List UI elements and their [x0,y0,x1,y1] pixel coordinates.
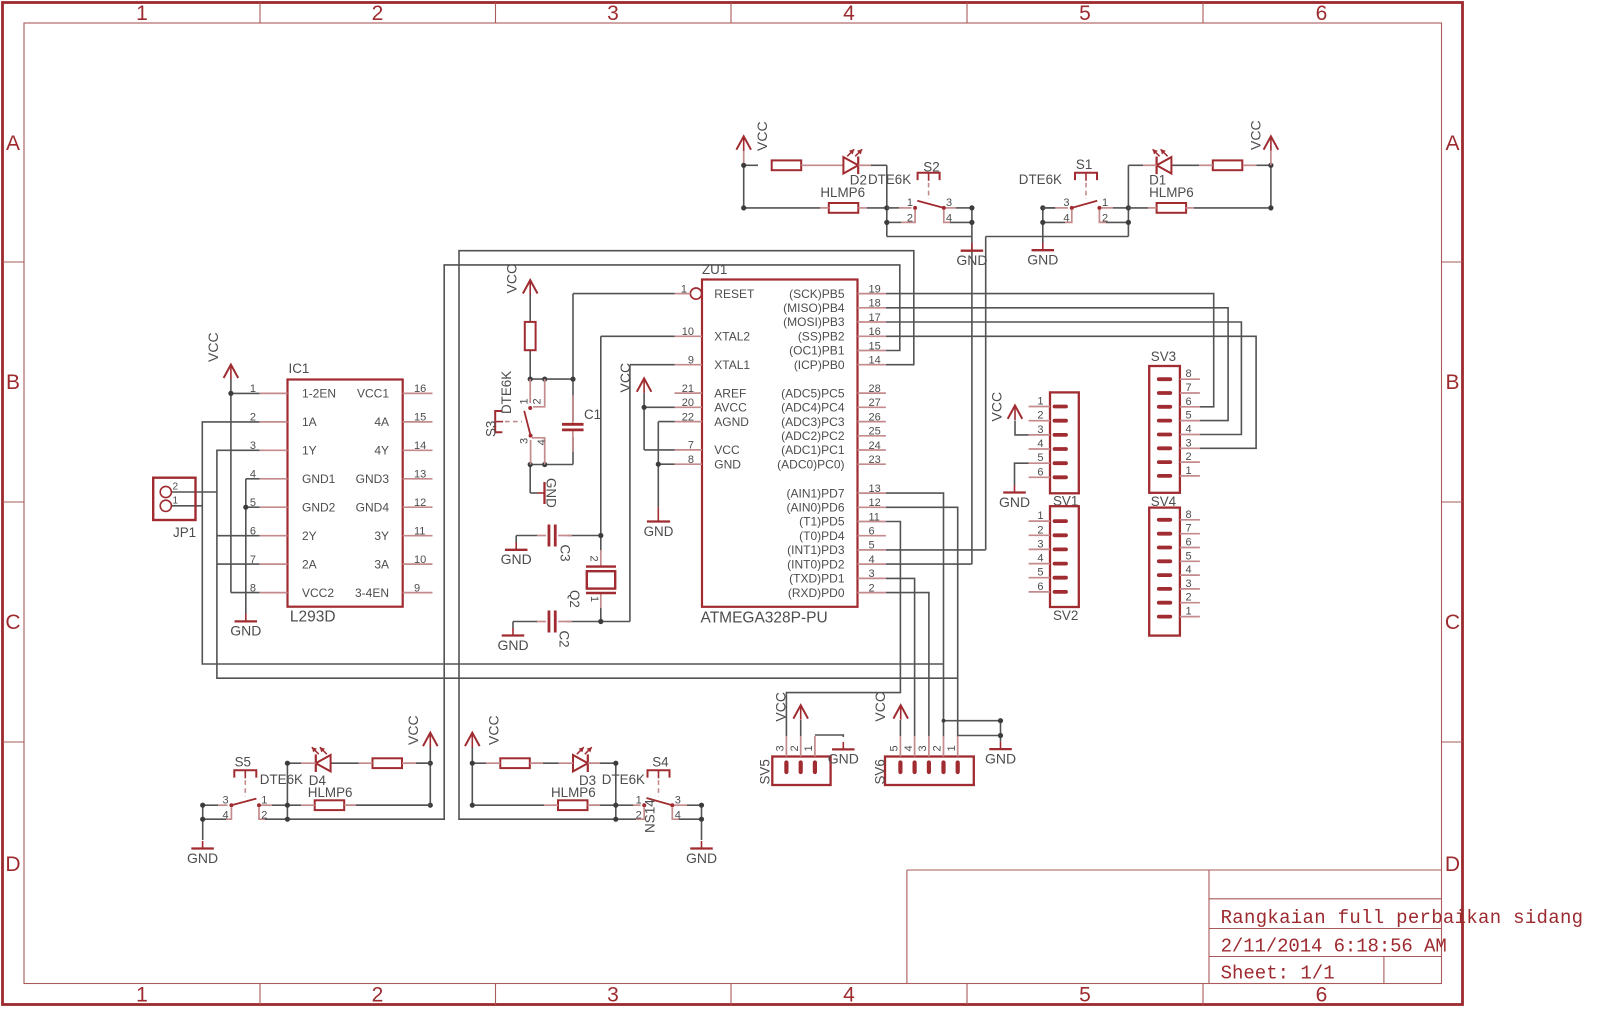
svg-text:JP1: JP1 [173,525,196,540]
wire PD7 to SV6 pin2 and GND [886,493,1001,737]
resistor for D3 [486,758,543,768]
wire IC1 GND1 GND2 [246,479,260,614]
wire SV6 VCC stem [899,720,901,736]
wire D4 VCC node [429,747,431,805]
svg-text:B: B [6,371,20,394]
resistor for D1 [1199,160,1257,170]
svg-text:2: 2 [907,212,913,224]
wire D4 branch [331,762,431,764]
LED D2 [843,149,871,174]
svg-text:4: 4 [536,439,548,445]
svg-text:10: 10 [682,326,694,338]
svg-text:DTE6K: DTE6K [260,772,303,787]
svg-text:L293D: L293D [290,609,336,626]
connector SV4 [1149,508,1200,636]
resistor HLMP6 for S4 [544,800,600,810]
svg-text:1: 1 [1037,510,1043,522]
svg-text:GND: GND [686,850,717,866]
svg-text:12: 12 [869,497,881,509]
connector SV1 [1029,392,1079,493]
svg-text:C1: C1 [584,407,601,422]
svg-text:(ADC2)PC2: (ADC2)PC2 [781,429,845,443]
svg-text:8: 8 [688,454,694,466]
svg-text:SV6: SV6 [873,759,888,784]
svg-text:1: 1 [250,383,256,395]
svg-text:DTE6K: DTE6K [1019,172,1062,187]
svg-text:15: 15 [414,412,426,424]
ground below S4 [686,841,717,866]
svg-text:1: 1 [907,197,913,209]
capacitor C3 [537,525,572,547]
svg-text:(ADC0)PC0): (ADC0)PC0) [777,457,844,471]
VCC symbol top right [1264,136,1279,151]
svg-text:5: 5 [1186,410,1192,422]
svg-text:5: 5 [889,745,901,751]
svg-text:2: 2 [173,482,179,493]
svg-text:6: 6 [1037,581,1043,593]
svg-text:VCC: VCC [772,692,788,722]
svg-text:7: 7 [688,440,694,452]
wire S5 HLMP6 branch [287,804,430,806]
svg-text:Q2: Q2 [567,590,582,608]
svg-text:1: 1 [803,745,815,751]
svg-text:1: 1 [1102,197,1108,209]
svg-text:XTAL1: XTAL1 [714,358,750,372]
ZU1 left pins [675,283,755,471]
svg-text:2: 2 [1102,212,1108,224]
ground for SV5 [828,742,859,767]
frame row dividers left [3,262,25,742]
svg-text:Rangkaian full perbaikan sidan: Rangkaian full perbaikan sidang [1221,907,1584,929]
svg-text:7: 7 [1186,523,1192,535]
wire S4 left node chain [616,763,636,819]
VCC for SV5 [793,705,808,720]
wire SV1 pin5 to GND [1015,463,1029,485]
wire ZU1 GND pin net [658,464,674,507]
wire VCC to D2 resistors [744,151,820,208]
svg-text:RESET: RESET [714,287,755,301]
svg-text:(MISO)PB4: (MISO)PB4 [783,301,845,315]
frame row letters left [5,132,20,876]
wire JP1 pin1 [171,505,202,507]
svg-text:17: 17 [869,312,881,324]
svg-text:GND: GND [999,494,1030,510]
wire VCC stem D1 pale [1270,151,1272,166]
svg-text:C: C [1445,611,1460,634]
svg-text:2A: 2A [302,557,317,571]
svg-text:A: A [1445,132,1459,155]
svg-text:2: 2 [1186,592,1192,604]
svg-text:27: 27 [869,397,881,409]
svg-text:3: 3 [675,794,681,806]
LED D1 [1143,149,1171,174]
svg-text:(AIN0)PD6: (AIN0)PD6 [786,501,844,515]
svg-text:1: 1 [136,2,148,25]
svg-text:3-4EN: 3-4EN [355,586,389,600]
wire S2 right node to GND and PD2 riser [886,208,972,564]
svg-text:8: 8 [250,582,256,594]
wire IC1 VCC rail [231,379,260,593]
connector SV5 [772,736,830,785]
switch S1 DTE6K [1043,173,1113,223]
svg-text:GND: GND [187,850,218,866]
svg-text:GND: GND [828,751,859,767]
crystal Q2 [586,550,616,608]
svg-text:4: 4 [1186,424,1192,436]
svg-text:S3: S3 [484,421,499,437]
svg-text:1: 1 [1186,465,1192,477]
svg-text:4: 4 [1037,438,1043,450]
svg-text:AGND: AGND [714,415,749,429]
svg-text:HLMP6: HLMP6 [820,185,865,200]
svg-text:16: 16 [869,326,881,338]
wire D1 cathode to S1 node [986,165,1143,236]
svg-text:D: D [5,853,20,876]
frame row dividers right [1442,262,1463,742]
svg-text:11: 11 [414,526,425,538]
svg-text:6: 6 [1316,984,1328,1007]
wire SV5 VCC stem [800,720,802,736]
wire S4 right node to GND [679,805,702,840]
svg-text:6: 6 [1186,396,1192,408]
wire C2 to crystal node [567,621,601,623]
svg-text:5: 5 [1079,2,1091,25]
svg-text:20: 20 [682,397,694,409]
svg-text:9: 9 [688,355,694,367]
wire RESET net [573,294,675,380]
svg-text:GND: GND [497,637,528,653]
svg-text:(ADC5)PC5: (ADC5)PC5 [781,386,845,400]
wire S3 node rails [530,379,573,464]
wire PB0 loop to S4 [459,251,914,820]
svg-text:S4: S4 [652,755,669,770]
svg-text:AVCC: AVCC [714,401,747,415]
wire S4 HLMP6 branch [472,804,616,806]
svg-text:XTAL2: XTAL2 [714,330,750,344]
svg-text:22: 22 [682,411,694,423]
svg-text:3: 3 [946,197,952,209]
resistor for D2 [772,160,802,170]
svg-text:1: 1 [588,596,600,602]
wire S5 left node to GND [203,805,226,840]
wire JP1 pin2 [171,491,217,493]
svg-text:(TXD)PD1: (TXD)PD1 [789,572,845,586]
svg-text:6: 6 [1316,2,1328,25]
switch S5 DTE6K [218,770,272,819]
svg-text:3: 3 [1063,197,1069,209]
svg-text:(SS)PB2: (SS)PB2 [798,330,845,344]
svg-text:4A: 4A [374,415,389,429]
svg-text:18: 18 [869,298,881,310]
svg-text:GND: GND [501,551,532,567]
svg-text:4: 4 [903,745,915,751]
svg-text:ZU1: ZU1 [702,262,727,277]
svg-text:SV2: SV2 [1053,608,1078,623]
svg-text:2: 2 [932,745,944,751]
svg-text:GND: GND [985,750,1016,766]
op-amp U1 : ZU1 ATMEGA328P-PU box [690,280,857,607]
svg-text:6: 6 [1186,537,1192,549]
wire PB2 to SV3 pin3 [886,336,1256,448]
svg-text:19: 19 [869,283,881,295]
wire PB5 to SV3 pin6 [886,294,1214,407]
wire XTAL2 net [601,336,675,535]
svg-text:SV4: SV4 [1151,494,1177,509]
svg-text:GND1: GND1 [302,472,336,486]
ground for C3 [501,542,532,567]
switch S4 DTE6K [633,770,687,819]
svg-text:VCC: VCC [486,715,502,745]
svg-text:2: 2 [1186,451,1192,463]
svg-text:1: 1 [636,794,642,806]
S4 pin numbers [636,794,681,821]
svg-text:4Y: 4Y [374,444,389,458]
svg-text:3: 3 [917,745,929,751]
wire PD5 to SV5 pin3 [786,522,900,737]
S2 pin numbers [907,197,952,224]
S5 pin numbers [222,794,267,821]
wire SV6 GND chain [1000,721,1002,742]
VCC for D4 [423,733,438,748]
svg-text:S5: S5 [235,755,251,770]
svg-text:GND: GND [1027,252,1058,268]
ground below S1 [1027,243,1058,268]
svg-text:2: 2 [372,984,384,1007]
svg-text:GND: GND [956,252,987,268]
svg-text:VCC: VCC [989,392,1005,422]
wire S3 to GND [530,465,537,494]
svg-text:(AIN1)PD7: (AIN1)PD7 [786,486,844,500]
resistor HLMP6 for D2 [820,203,867,213]
resistor for D4 [359,758,431,768]
svg-text:3: 3 [250,440,256,452]
LED D3 [559,747,601,772]
svg-text:8: 8 [1186,368,1192,380]
ground for SV6 [985,742,1016,767]
svg-text:3: 3 [1186,578,1192,590]
wire C3 to crystal node [567,535,601,537]
svg-text:(OC1)PB1: (OC1)PB1 [789,344,845,358]
svg-text:3: 3 [775,745,787,751]
svg-text:1-2EN: 1-2EN [302,387,336,401]
svg-text:VCC: VCC [714,443,740,457]
svg-text:(ADC3)PC3: (ADC3)PC3 [781,415,845,429]
svg-text:VCC: VCC [872,692,888,722]
svg-text:2: 2 [250,412,256,424]
svg-text:1: 1 [1186,606,1192,618]
svg-text:13: 13 [869,483,881,495]
ground for C2 [497,628,528,653]
wire C3 to GND [516,536,537,543]
capacitor C1 [562,395,584,452]
connector JP1 [153,478,195,520]
svg-text:14: 14 [414,440,426,452]
svg-text:GND: GND [230,623,261,639]
ground for IC1 [230,614,261,639]
S3 pin numbers [519,398,548,445]
svg-text:4: 4 [1186,564,1192,576]
VCC symbol above S3 resistor [523,280,538,295]
svg-text:(INT1)PD3: (INT1)PD3 [787,543,845,557]
svg-text:Sheet: 1/1: Sheet: 1/1 [1221,963,1335,985]
svg-text:3: 3 [607,984,619,1007]
svg-text:(T1)PD5: (T1)PD5 [799,515,845,529]
svg-text:DTE6K: DTE6K [868,172,911,187]
svg-text:4: 4 [843,984,855,1007]
switch S3 DTE6K [495,379,545,464]
svg-text:VCC2: VCC2 [302,586,334,600]
svg-text:S2: S2 [923,160,939,175]
svg-text:1Y: 1Y [302,444,317,458]
svg-text:AREF: AREF [714,386,746,400]
wire PB3 to SV3 pin4 [886,322,1242,435]
svg-text:NS14: NS14 [643,799,658,833]
svg-text:3: 3 [1037,424,1043,436]
svg-text:C: C [5,611,20,634]
wire PD0 to SV6 pin3 [886,593,929,736]
svg-text:1: 1 [173,495,179,506]
svg-text:2: 2 [1037,524,1043,536]
svg-text:2: 2 [869,582,875,594]
wire SV5 pin1 to GND [815,735,843,737]
svg-text:3: 3 [519,438,531,444]
wire PD6 to SV6 pin1 and GND [886,507,1001,737]
svg-text:GND: GND [644,524,674,539]
wire VCC to D1 resistors [1194,165,1271,208]
wire D3 branch [472,762,616,764]
svg-text:8: 8 [1186,509,1192,521]
svg-text:GND: GND [714,457,741,471]
ZU1 right pins [777,283,886,599]
resistor HLMP6 for S5 [301,800,430,810]
wire SV1 VCC to pin3 [1015,421,1029,435]
svg-text:HLMP6: HLMP6 [551,785,596,800]
VCC symbol top left [736,136,751,151]
svg-text:GND2: GND2 [302,500,336,514]
svg-text:1: 1 [1037,396,1043,408]
svg-text:6: 6 [1037,466,1043,478]
ground below S2 [956,243,987,268]
frame row letters right [1445,132,1460,876]
svg-text:24: 24 [869,440,881,452]
frame column numbers top [136,2,1327,25]
svg-text:9: 9 [414,582,420,594]
wire S1 left node to GND [1043,208,1065,243]
svg-text:(T0)PD4: (T0)PD4 [799,529,845,543]
title block box [907,870,1442,984]
svg-text:ATMEGA328P-PU: ATMEGA328P-PU [701,610,828,627]
svg-text:1A: 1A [302,415,317,429]
wire D3 VCC node [471,747,473,805]
svg-text:23: 23 [869,454,881,466]
wire C2 to GND [513,622,537,629]
svg-text:12: 12 [414,497,426,509]
svg-text:10: 10 [414,554,426,566]
connector SV2 [1029,506,1079,607]
svg-text:3Y: 3Y [374,529,389,543]
svg-text:VCC: VCC [617,363,633,393]
svg-text:4: 4 [250,469,256,481]
svg-text:S1: S1 [1076,157,1092,172]
wire crystal bottom stub [600,607,602,622]
resistor R-reset vertical [525,322,536,350]
svg-text:(SCK)PB5: (SCK)PB5 [789,287,845,301]
op-amp IC1 : L293D box [288,380,403,607]
wire XTAL1 net [601,365,675,622]
svg-text:14: 14 [869,355,881,367]
svg-text:2: 2 [1037,410,1043,422]
wire PB1 loop to S5 [287,265,899,819]
connector SV6 [885,736,974,785]
svg-text:A: A [6,132,20,155]
resistor HLMP6 for D1 [1128,203,1194,213]
svg-text:C3: C3 [558,545,573,562]
svg-text:4: 4 [869,554,875,566]
wire S5 right node chain [264,763,301,819]
svg-text:2: 2 [588,556,600,562]
connector SV3 [1149,366,1200,493]
svg-text:2: 2 [531,398,543,404]
wire IC1 1A to bus [202,422,943,664]
svg-text:4: 4 [946,212,952,224]
svg-text:DTE6K: DTE6K [602,772,645,787]
svg-text:B: B [1445,371,1459,394]
svg-text:C2: C2 [557,631,572,648]
svg-text:VCC: VCC [754,121,770,151]
frame column dividers bottom [260,984,1203,1005]
wire AGND net [658,422,674,465]
svg-text:(ICP)PB0: (ICP)PB0 [794,358,845,372]
svg-text:5: 5 [250,497,256,509]
svg-text:HLMP6: HLMP6 [1149,185,1194,200]
wire crystal top stub [600,536,602,553]
svg-text:2: 2 [636,810,642,822]
svg-text:4: 4 [675,810,681,822]
svg-text:11: 11 [869,511,880,523]
wire IC1 1Y chain to bus [217,450,958,678]
svg-text:3A: 3A [374,557,389,571]
frame column dividers top [260,3,1203,24]
svg-text:SV3: SV3 [1151,349,1176,364]
svg-text:SV5: SV5 [758,759,773,784]
svg-text:(RXD)PD0: (RXD)PD0 [788,586,845,600]
svg-text:6: 6 [869,526,875,538]
svg-text:(INT0)PD2: (INT0)PD2 [787,557,845,571]
svg-text:2: 2 [789,745,801,751]
wire S3 VCC stem [529,295,531,322]
svg-text:4: 4 [1063,212,1069,224]
VCC for IC1 [224,365,239,380]
wire D2 cathode to S2 node [867,165,972,236]
VCC for D3 [465,733,480,748]
svg-text:IC1: IC1 [289,361,310,376]
svg-text:D: D [1445,853,1460,876]
svg-text:13: 13 [414,469,426,481]
VCC symbol for AVCC [637,378,652,393]
ground for SV1 [999,485,1030,510]
svg-text:VCC: VCC [405,715,421,745]
svg-text:GND4: GND4 [356,500,390,514]
svg-text:5: 5 [1037,567,1043,579]
svg-text:28: 28 [869,383,881,395]
svg-text:4: 4 [1037,553,1043,565]
svg-text:5: 5 [1079,984,1091,1007]
svg-text:GND: GND [544,478,559,508]
svg-text:7: 7 [1186,382,1192,394]
svg-text:5: 5 [1037,452,1043,464]
svg-text:GND3: GND3 [356,472,390,486]
svg-text:VCC1: VCC1 [357,387,389,401]
